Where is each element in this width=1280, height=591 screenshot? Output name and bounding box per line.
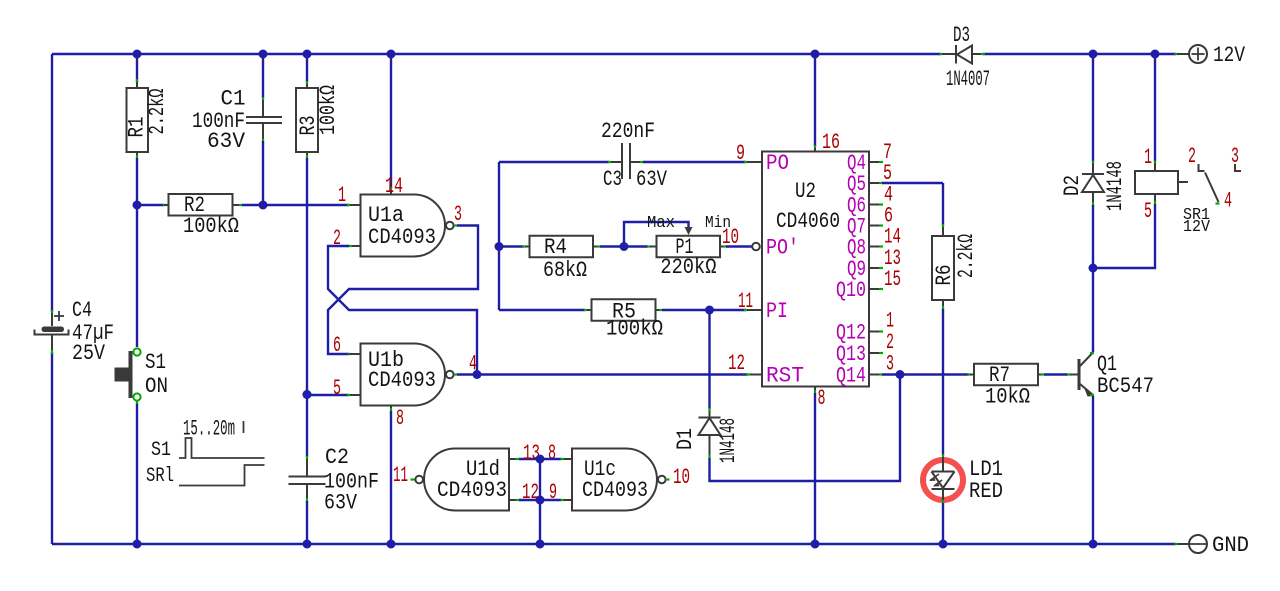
node junction D2 SR1 xyxy=(1089,264,1098,273)
svg-text:PO': PO' xyxy=(766,236,799,261)
pin 11 label U1d xyxy=(393,463,408,488)
svg-text:63V: 63V xyxy=(207,129,246,154)
resistor R6 xyxy=(932,227,979,300)
svg-text:S1: S1 xyxy=(145,350,166,375)
wire C1 top xyxy=(262,54,264,111)
svg-text:100kΩ: 100kΩ xyxy=(606,317,663,342)
pin 10 label U1c xyxy=(673,465,690,490)
node junction gate inputs top xyxy=(536,455,545,464)
wire U1a pin 14 xyxy=(390,54,392,195)
diode D1 xyxy=(673,411,741,463)
pin 2 label xyxy=(333,226,341,251)
pin labels 12 9 xyxy=(522,480,557,505)
node junction gate line bottom rail xyxy=(536,540,545,549)
LED LD1 xyxy=(923,457,1003,504)
svg-text:ON: ON xyxy=(145,374,168,399)
pin 6 label xyxy=(333,333,341,358)
node junction top rail pin16 xyxy=(811,50,820,59)
op-amp U1d xyxy=(411,449,510,511)
wire R5 to PI xyxy=(656,309,763,311)
svg-text:63V: 63V xyxy=(636,167,668,192)
svg-text:4: 4 xyxy=(1224,189,1232,214)
capacitor C2 xyxy=(289,445,380,516)
svg-text:1: 1 xyxy=(338,183,346,208)
node junction osc R4 xyxy=(495,242,504,251)
wire D2 top xyxy=(1092,54,1094,165)
resistor R5 xyxy=(587,299,663,341)
pin 3 label xyxy=(454,202,462,227)
svg-text:3: 3 xyxy=(1231,144,1239,169)
wire R4 to P1 xyxy=(593,246,657,248)
wire D1 bottom to Q14 row xyxy=(710,375,901,482)
diode D3 xyxy=(940,23,991,92)
wire D2 bottom xyxy=(1092,202,1094,352)
wire R1 to S1 xyxy=(136,152,138,347)
node junction Q1 rail xyxy=(1089,540,1098,549)
svg-text:1N4007: 1N4007 xyxy=(946,67,990,92)
node junction R4-P1 wiper xyxy=(620,242,629,251)
wire P1 wiper xyxy=(624,222,693,247)
svg-text:2.2kΩ: 2.2kΩ xyxy=(954,234,979,278)
capacitor C1 xyxy=(192,87,282,155)
wire bottom GND rail xyxy=(52,543,1176,545)
svg-text:1: 1 xyxy=(1144,145,1152,170)
svg-text:CD4093: CD4093 xyxy=(437,478,507,503)
svg-text:Max: Max xyxy=(647,214,675,233)
wire P1 to PO2 xyxy=(720,243,760,251)
node junction R5 D1 xyxy=(705,306,714,315)
svg-text:1N4148: 1N4148 xyxy=(1103,161,1128,211)
wire gate inputs to bottom rail xyxy=(539,459,541,544)
svg-text:10: 10 xyxy=(673,465,690,490)
wire S1 to bottom rail xyxy=(136,401,138,544)
svg-text:8: 8 xyxy=(396,406,404,431)
wire R6 to LED xyxy=(942,300,944,458)
wire U2 pin 16 xyxy=(814,54,816,152)
node junction top rail R3 xyxy=(303,50,312,59)
svg-text:12V: 12V xyxy=(1213,43,1246,68)
svg-text:RED: RED xyxy=(969,479,1003,504)
resistor R1 xyxy=(125,82,171,152)
diode D2 xyxy=(1060,161,1128,211)
wire Q14 to R7 xyxy=(882,373,972,375)
svg-text:5: 5 xyxy=(1144,199,1152,224)
relay SR1 coil xyxy=(1135,171,1211,237)
transistor Q1 xyxy=(1078,352,1155,399)
wire R2 left xyxy=(137,204,167,206)
capacitor C3 xyxy=(601,119,668,192)
svg-text:S1: S1 xyxy=(151,439,171,462)
node junction pin8 bottom rail xyxy=(387,540,396,549)
resistor R3 xyxy=(296,84,341,152)
node junction S1 bottom rail xyxy=(133,540,142,549)
wire D1 top xyxy=(708,310,710,412)
wire R2 to U1a pin1 xyxy=(233,204,361,206)
node junction R1-R2 xyxy=(133,201,142,210)
node junction top rail D2 xyxy=(1089,50,1098,59)
pin 12 label xyxy=(728,351,745,376)
timing diagram S1 SR1 xyxy=(146,417,265,489)
svg-text:C4: C4 xyxy=(72,298,92,323)
node junction top rail C1 xyxy=(259,50,268,59)
wire U1d inputs xyxy=(509,459,540,500)
node junction gate inputs bottom xyxy=(536,496,545,505)
svg-text:9: 9 xyxy=(736,141,745,166)
svg-text:U2: U2 xyxy=(795,179,816,204)
svg-text:Q10: Q10 xyxy=(836,278,866,303)
node junction top rail SR1 xyxy=(1151,50,1160,59)
U2 right pin numbers xyxy=(883,140,901,377)
svg-text:PI: PI xyxy=(766,299,788,324)
svg-text:R4: R4 xyxy=(544,235,567,260)
wire U1b out to RST xyxy=(454,373,750,375)
pin 10 label U2 xyxy=(722,225,739,250)
svg-text:100kΩ: 100kΩ xyxy=(316,85,341,135)
pin 1 label SR1 xyxy=(1144,145,1152,170)
node junction top rail R1 xyxy=(133,50,142,59)
svg-text:1N4148: 1N4148 xyxy=(716,418,741,463)
wire U1a pin2 cross xyxy=(328,246,477,375)
svg-text:D1: D1 xyxy=(673,428,698,450)
wire left rail xyxy=(51,54,53,544)
svg-text:100kΩ: 100kΩ xyxy=(183,214,239,239)
relay SR1 contacts xyxy=(1188,144,1241,214)
svg-text:Q14: Q14 xyxy=(836,364,866,389)
svg-text:5: 5 xyxy=(333,376,341,401)
U2 left stubs xyxy=(750,162,762,375)
pin 16 label xyxy=(822,130,840,155)
wire R4 left xyxy=(499,245,526,247)
resistor R4 xyxy=(525,235,593,283)
node junction Q14 D1 xyxy=(896,370,905,379)
wire R5 left xyxy=(499,309,588,311)
pin 8 label U2 xyxy=(818,386,826,411)
wire R3 top xyxy=(306,54,308,85)
svg-text:BC547: BC547 xyxy=(1097,374,1154,399)
svg-text:11: 11 xyxy=(393,463,408,488)
svg-text:63V: 63V xyxy=(324,491,358,516)
wire R7 to Q1 xyxy=(1038,374,1078,376)
svg-text:9: 9 xyxy=(549,480,557,505)
pin labels 13 8 xyxy=(523,441,556,466)
wire Q1 emitter xyxy=(1092,396,1094,544)
wire U1a out cross xyxy=(328,226,478,355)
svg-text:220kΩ: 220kΩ xyxy=(660,255,716,280)
svg-text:2.2kΩ: 2.2kΩ xyxy=(145,89,170,135)
node GND terminal xyxy=(1175,533,1250,558)
svg-text:C2: C2 xyxy=(325,445,349,470)
svg-text:12V: 12V xyxy=(1183,218,1211,237)
node junction C1-R2 xyxy=(259,201,268,210)
pin 9 label xyxy=(736,141,745,166)
capacitor C4 xyxy=(35,298,115,366)
svg-text:8: 8 xyxy=(548,441,556,466)
op-amp U2 xyxy=(762,151,869,389)
node junction C2 bottom rail xyxy=(303,540,312,549)
node junction pin8 rail xyxy=(811,540,820,549)
svg-text:D3: D3 xyxy=(953,23,970,48)
svg-text:68kΩ: 68kΩ xyxy=(543,258,587,283)
svg-text:220nF: 220nF xyxy=(601,119,655,144)
node junction U1b out xyxy=(473,370,482,379)
svg-text:10: 10 xyxy=(722,225,739,250)
svg-text:3: 3 xyxy=(454,202,462,227)
svg-text:CD4093: CD4093 xyxy=(368,368,436,393)
node junction LED rail xyxy=(939,540,948,549)
wire U1c inputs xyxy=(540,459,572,500)
wire LED bottom xyxy=(942,500,944,544)
wire U1b pin8 to bottom xyxy=(390,406,392,545)
pin 4 label xyxy=(469,352,477,377)
wire C1 bottom xyxy=(262,139,264,206)
wire U1b pin5 xyxy=(303,390,361,399)
pin 8 label U1b xyxy=(396,406,404,431)
svg-text:PO: PO xyxy=(766,151,789,176)
svg-text:25V: 25V xyxy=(72,341,106,366)
wire U2 pin 8 xyxy=(814,387,816,545)
wire PO row left xyxy=(499,161,612,163)
op-amp U1a xyxy=(361,195,454,257)
wire Q5 to R6 xyxy=(882,183,943,228)
svg-text:SRl: SRl xyxy=(146,465,174,488)
wire osc left vertical xyxy=(498,162,500,310)
node junction R3 line pin5 xyxy=(303,390,312,399)
svg-text:3: 3 xyxy=(886,352,894,377)
svg-text:2: 2 xyxy=(1188,144,1196,169)
svg-text:2: 2 xyxy=(333,226,341,251)
svg-text:15: 15 xyxy=(884,267,901,292)
svg-text:C1: C1 xyxy=(221,87,246,112)
resistor R7 xyxy=(970,363,1038,410)
node 12V terminal xyxy=(1175,43,1246,68)
svg-text:10kΩ: 10kΩ xyxy=(985,385,1030,410)
wire R1 top xyxy=(136,54,138,83)
svg-text:C3: C3 xyxy=(603,167,622,192)
pin 14 label xyxy=(385,174,403,199)
pin 1 label xyxy=(338,183,346,208)
wire SR1 pin1 xyxy=(1154,54,1156,171)
svg-text:12: 12 xyxy=(728,351,745,376)
svg-text:CD4060: CD4060 xyxy=(776,209,840,234)
U2 right stubs xyxy=(869,162,883,375)
node junction top rail pin14 xyxy=(387,50,396,59)
wire SR1 pin5 xyxy=(1093,194,1155,268)
wire C2 bottom xyxy=(306,498,308,544)
svg-text:RST: RST xyxy=(766,364,804,389)
wire top 12V rail xyxy=(52,53,1176,55)
svg-text:8: 8 xyxy=(818,386,826,411)
pin 5 label xyxy=(333,376,341,401)
op-amp U1c xyxy=(572,449,670,511)
wire PO row right xyxy=(640,161,762,163)
svg-text:GND: GND xyxy=(1212,533,1249,558)
pin 11 label U2 xyxy=(738,289,753,314)
svg-text:CD4093: CD4093 xyxy=(368,225,436,250)
op-amp U1b xyxy=(361,344,454,406)
svg-text:CD4093: CD4093 xyxy=(582,478,648,503)
potentiometer P1 xyxy=(647,214,731,280)
wire R3 to C2 xyxy=(306,152,308,460)
resistor R2 xyxy=(164,193,239,239)
svg-text:D2: D2 xyxy=(1060,175,1085,196)
svg-text:6: 6 xyxy=(333,333,341,358)
pin 5 label SR1 xyxy=(1144,199,1152,224)
switch S1 xyxy=(115,348,169,400)
